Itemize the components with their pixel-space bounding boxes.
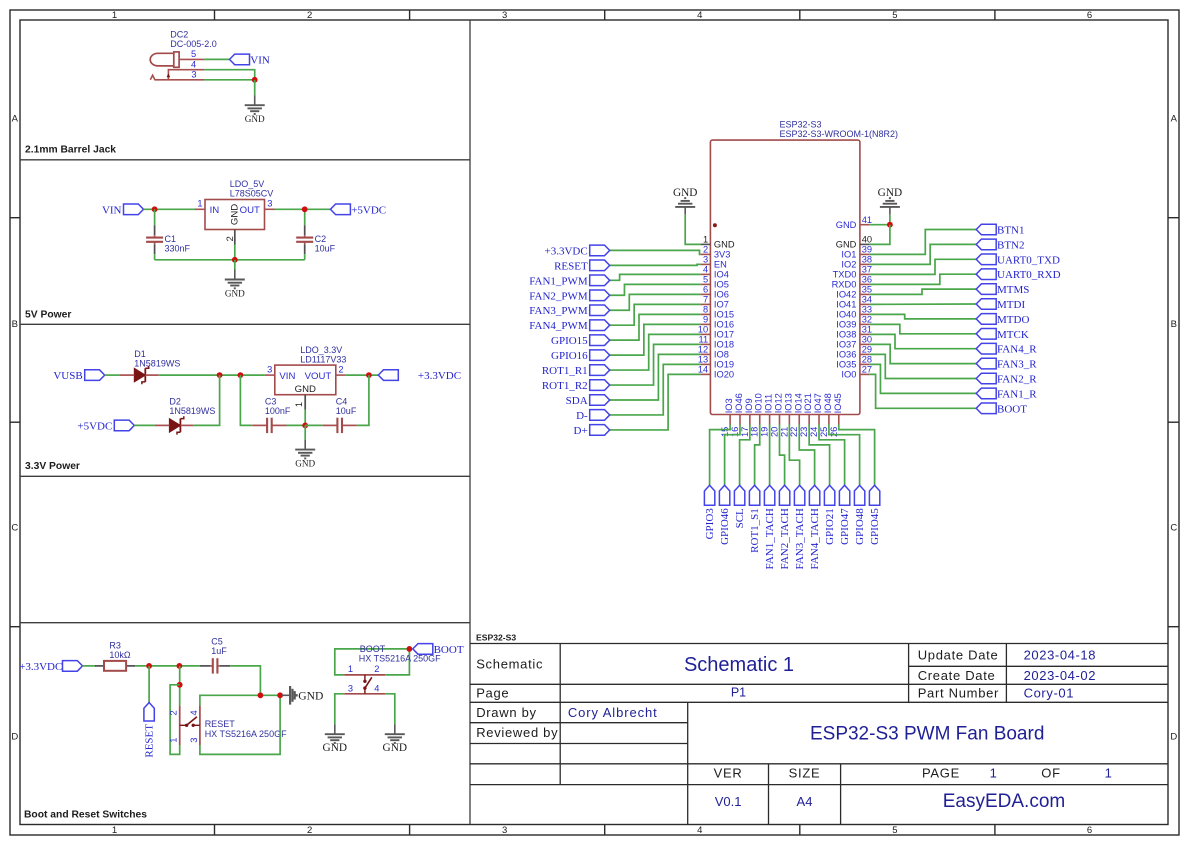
svg-text:D-: D- [576, 410, 588, 422]
svg-text:34: 34 [862, 295, 872, 305]
net flag FAN4_PWM [529, 320, 609, 332]
DC2 pin 4 [167, 60, 205, 80]
U1 pin 24 IO47 [809, 393, 823, 437]
wire boot pin2 to flag [385, 649, 409, 675]
net flag BTN1 [976, 224, 1024, 236]
net flag VIN 5V input [102, 204, 144, 216]
svg-text:C1: C1 [165, 234, 177, 244]
svg-text:C3: C3 [265, 397, 277, 407]
svg-text:3: 3 [191, 70, 196, 80]
svg-text:ROT1_S1: ROT1_S1 [749, 508, 761, 553]
svg-text:HX TS5216A 250GF: HX TS5216A 250GF [359, 654, 441, 664]
svg-text:B: B [1171, 319, 1177, 330]
LDO_3.3V pin 3 VIN [265, 364, 296, 382]
wire VIN from DC2 pin 5 [204, 58, 229, 60]
svg-text:2: 2 [374, 664, 379, 674]
svg-text:GND: GND [245, 114, 265, 124]
wire MTDI to U1 [870, 303, 977, 305]
net flag VIN [230, 54, 270, 66]
U1 pin 1 GND [701, 235, 735, 250]
svg-text:6: 6 [1087, 10, 1092, 21]
svg-text:MTDO: MTDO [997, 314, 1029, 326]
svg-text:IO6: IO6 [714, 290, 729, 300]
wire R3 to C5 [135, 665, 200, 667]
svg-text:IO19: IO19 [714, 360, 734, 370]
junction C3 node top [238, 372, 244, 378]
U1 pin 9 IO16 [701, 315, 734, 330]
wire C3 to GND node [287, 424, 306, 426]
svg-text:32: 32 [862, 315, 872, 325]
capacitor C5 1uF [200, 636, 230, 673]
U1 pin 39 IO1 [841, 245, 872, 260]
svg-text:GND: GND [673, 187, 697, 199]
wire FAN3_PWM to U1 [610, 294, 701, 310]
svg-text:C5: C5 [211, 636, 223, 646]
ground GND boot right [383, 724, 407, 754]
wire D- to U1 [610, 364, 701, 415]
U1 pin 32 IO39 [836, 315, 872, 330]
wire FAN4_TACH to U1 [799, 425, 814, 486]
net flag SDA [566, 395, 610, 407]
svg-text:37: 37 [862, 265, 872, 275]
wire SDA to U1 [610, 354, 701, 400]
svg-text:2: 2 [225, 236, 235, 241]
junction OUT-C2 [302, 206, 308, 212]
svg-text:IO13: IO13 [783, 393, 793, 413]
junction pin41 gnd [887, 222, 893, 228]
net flag BOOT [413, 644, 464, 656]
U1 pin 29 IO36 [836, 345, 872, 360]
wire boot pin1 to flag [335, 649, 410, 675]
svg-text:IO20: IO20 [714, 370, 734, 380]
U1 pin 41 GND [836, 215, 872, 230]
wire C4 branch up [357, 375, 369, 425]
wire node to C4 [305, 424, 322, 426]
ground GND barrel jack [245, 95, 265, 124]
diode D1 1N5819WS [120, 349, 181, 384]
svg-text:B: B [12, 319, 18, 330]
svg-text:1: 1 [348, 664, 353, 674]
wire FAN2_R to U1 [870, 354, 977, 378]
svg-text:GPIO16: GPIO16 [551, 350, 588, 362]
svg-text:IO15: IO15 [714, 310, 734, 320]
svg-text:24: 24 [809, 427, 819, 437]
svg-text:IO39: IO39 [836, 320, 856, 330]
wire RESET flag drop [148, 666, 150, 703]
U1 pin 22 IO14 [789, 393, 803, 437]
svg-text:20: 20 [770, 427, 780, 437]
U1 pin 38 IO2 [841, 255, 872, 270]
section labels [24, 145, 516, 821]
wire ROT1_S1 to U1 [755, 425, 760, 486]
svg-text:EasyEDA.com: EasyEDA.com [943, 791, 1065, 812]
junction gnd rail flag [277, 692, 283, 698]
svg-text:IO37: IO37 [836, 340, 856, 350]
wire FAN3_R to U1 [870, 344, 977, 363]
svg-text:IO45: IO45 [833, 393, 843, 413]
wire FAN2_PWM to U1 [610, 284, 701, 295]
svg-text:ESP32-S3-WROOM-1(N8R2): ESP32-S3-WROOM-1(N8R2) [780, 129, 899, 139]
svg-text:FAN4_TACH: FAN4_TACH [809, 508, 821, 569]
U1 pin 30 IO37 [836, 335, 872, 350]
svg-text:BOOT: BOOT [434, 644, 464, 656]
svg-text:330nF: 330nF [165, 244, 191, 254]
svg-text:1: 1 [197, 199, 202, 209]
svg-text:ROT1_R2: ROT1_R2 [542, 380, 588, 392]
svg-text:4: 4 [703, 265, 708, 275]
svg-text:LD1117V33: LD1117V33 [300, 355, 346, 365]
svg-text:IO11: IO11 [764, 394, 774, 413]
LDO_5V pin 1 IN [195, 199, 219, 216]
svg-text:IO3: IO3 [724, 398, 734, 413]
svg-text:Part Number: Part Number [918, 686, 999, 701]
junction 3.3V gnd node [302, 423, 308, 429]
svg-text:3.3V Power: 3.3V Power [25, 461, 80, 472]
svg-text:IO5: IO5 [714, 280, 729, 290]
section dividers [20, 20, 470, 825]
capacitor C3 100nF [252, 397, 291, 434]
svg-text:FAN4_PWM: FAN4_PWM [529, 320, 588, 332]
ground GND boot left [323, 724, 347, 754]
net flag GPIO21 [824, 485, 836, 545]
net flag RESET [554, 260, 610, 272]
U1 pin 25 IO48 [819, 393, 833, 437]
svg-text:FAN1_R: FAN1_R [997, 388, 1037, 400]
U1 pin 13 IO19 [698, 355, 734, 370]
net flag +3.3VDC [545, 245, 610, 257]
U1 pin 8 IO15 [701, 305, 734, 320]
svg-text:RXD0: RXD0 [832, 280, 857, 290]
svg-text:VOUT: VOUT [305, 371, 332, 382]
wire FAN2_TACH to U1 [780, 425, 785, 486]
svg-text:38: 38 [862, 255, 872, 265]
wire MTMS to U1 [870, 289, 977, 294]
svg-text:31: 31 [862, 325, 872, 335]
svg-text:GPIO47: GPIO47 [839, 508, 851, 545]
svg-text:C: C [1170, 523, 1177, 534]
svg-text:3: 3 [348, 683, 353, 693]
svg-text:FAN1_TACH: FAN1_TACH [764, 508, 776, 569]
wire D1 to LDO_3.3V VIN [159, 374, 265, 376]
ground GND U1 left [673, 187, 697, 215]
wire OUT to +5VDC [275, 208, 331, 210]
net flag GPIO16 [551, 350, 610, 362]
net flag FAN2_TACH [779, 485, 791, 569]
resistor R3 10k [95, 640, 135, 671]
svg-text:2: 2 [307, 825, 312, 836]
svg-text:36: 36 [862, 275, 872, 285]
wire boot pin3 to gnd [335, 694, 344, 724]
wire BTN1 to U1 [870, 230, 977, 255]
svg-text:19: 19 [760, 427, 770, 437]
svg-text:1: 1 [1105, 765, 1112, 780]
net flag FAN3_R [976, 358, 1037, 370]
wire MTCK to U1 [870, 324, 977, 333]
svg-text:IO48: IO48 [823, 393, 833, 413]
svg-text:GPIO46: GPIO46 [719, 508, 731, 545]
svg-text:1: 1 [112, 10, 117, 21]
svg-text:17: 17 [740, 427, 750, 437]
svg-text:18: 18 [750, 427, 760, 437]
U1 pin 36 RXD0 [832, 275, 872, 290]
labels BOOT switch [359, 644, 441, 664]
LDO_5V pin 2 GND [225, 204, 240, 245]
svg-text:FAN2_R: FAN2_R [997, 374, 1037, 386]
U1 pin 14 IO20 [698, 365, 734, 380]
svg-text:5: 5 [191, 49, 196, 59]
LDO_3.3V pin 1 GND [294, 384, 316, 410]
svg-text:2: 2 [703, 245, 708, 255]
svg-text:5: 5 [703, 275, 708, 285]
net flag MTDI [976, 299, 1025, 311]
net flag GPIO47 [839, 485, 851, 545]
net flag +5VDC [330, 204, 386, 216]
svg-text:4: 4 [697, 10, 702, 21]
net flag UART0_RXD [976, 269, 1060, 281]
wire FAN1_TACH to U1 [769, 425, 771, 486]
svg-text:1N5819WS: 1N5819WS [169, 406, 215, 416]
net flag FAN1_TACH [764, 485, 776, 569]
svg-text:1uF: 1uF [211, 646, 227, 656]
svg-text:FAN1_PWM: FAN1_PWM [529, 275, 588, 287]
svg-text:D: D [1170, 732, 1177, 743]
svg-text:IO17: IO17 [714, 330, 734, 340]
junction boot flag [407, 646, 413, 652]
svg-text:FAN2_TACH: FAN2_TACH [779, 508, 791, 569]
net flag RESET vertical [144, 703, 156, 758]
svg-text:GND: GND [836, 220, 857, 230]
marker dot U1 [713, 223, 717, 227]
junction reset loop [177, 682, 183, 688]
wire reset pins 3-4 to gnd rail [200, 695, 280, 705]
wire GPIO48 to U1 [829, 425, 860, 486]
wire ROT1_R2 to U1 [610, 344, 701, 385]
svg-text:PAGE: PAGE [922, 765, 960, 780]
wire VOUT to +3.3VDC flag [346, 374, 379, 376]
svg-text:6: 6 [703, 285, 708, 295]
wire +3.3VDC to U1 [610, 250, 701, 254]
title block labels [476, 648, 1061, 781]
svg-text:FAN3_R: FAN3_R [997, 359, 1037, 371]
svg-text:GPIO21: GPIO21 [824, 508, 836, 545]
wire 5V ground rail [155, 259, 305, 261]
svg-text:1: 1 [112, 825, 117, 836]
wire GPIO45 to U1 [839, 425, 875, 486]
svg-text:1N5819WS: 1N5819WS [134, 359, 180, 369]
net flag D- [576, 410, 610, 422]
DC2 pin 3 [150, 70, 204, 80]
net flag ROT1_S1 [749, 485, 761, 553]
svg-text:9: 9 [703, 315, 708, 325]
wire UART0_RXD to U1 [870, 274, 977, 284]
svg-text:33: 33 [862, 305, 872, 315]
svg-text:VIN: VIN [250, 54, 270, 66]
svg-text:P1: P1 [731, 685, 746, 699]
svg-text:GND: GND [298, 690, 323, 703]
svg-text:D+: D+ [574, 425, 588, 437]
wire FAN4_R to U1 [870, 334, 977, 348]
wire to reset switch pin2 [179, 666, 181, 706]
svg-text:13: 13 [698, 355, 708, 365]
svg-text:GND: GND [836, 240, 857, 250]
U1 pin 37 TXD0 [833, 265, 872, 280]
wire reset pins 1-2 loop [170, 685, 180, 755]
wire UART0_TXD to U1 [870, 259, 977, 274]
net flag FAN3_PWM [529, 305, 609, 317]
U1 pin 34 IO41 [836, 295, 872, 310]
svg-text:VIN: VIN [279, 371, 295, 382]
svg-text:IO40: IO40 [836, 310, 856, 320]
svg-text:GPIO3: GPIO3 [704, 508, 716, 540]
wire GPIO15 to U1 [610, 314, 701, 340]
svg-text:14: 14 [698, 365, 708, 375]
LDO_3.3V pin 2 VOUT [305, 364, 346, 382]
svg-text:10kΩ: 10kΩ [109, 650, 131, 660]
net flag D+ [574, 425, 610, 437]
wire GND drop [254, 80, 256, 95]
svg-text:C: C [11, 523, 18, 534]
switch RESET HX TS5216A 250GF [169, 706, 287, 745]
svg-text:2.1mm Barrel Jack: 2.1mm Barrel Jack [25, 145, 116, 156]
svg-text:L78S05CV: L78S05CV [230, 189, 274, 199]
svg-text:IO41: IO41 [836, 300, 856, 310]
svg-text:+3.3VDC: +3.3VDC [418, 370, 461, 382]
wire +3.3VDC to R3 [83, 665, 96, 667]
svg-text:DC-005-2.0: DC-005-2.0 [170, 39, 217, 49]
net flag FAN2_R [976, 373, 1037, 385]
junction RESET branch [146, 663, 152, 669]
svg-text:MTCK: MTCK [997, 329, 1029, 341]
wire VUSB to D1 [105, 374, 120, 376]
module U1 ESP32-S3-WROOM-1 [710, 119, 898, 414]
net flag FAN2_PWM [529, 290, 609, 302]
svg-text:+5VDC: +5VDC [351, 204, 386, 216]
wire ROT1_R1 to U1 [610, 334, 701, 370]
wire D+ to U1 [610, 374, 701, 430]
svg-text:D1: D1 [134, 349, 146, 359]
svg-text:3: 3 [502, 825, 507, 836]
U1 pin 21 IO13 [779, 393, 793, 437]
svg-text:OUT: OUT [240, 205, 260, 216]
wire +5VDC to D2 [134, 424, 155, 426]
svg-text:IO46: IO46 [734, 393, 744, 413]
svg-text:RESET: RESET [554, 260, 588, 272]
svg-text:GPIO48: GPIO48 [854, 508, 866, 545]
svg-text:3: 3 [267, 364, 272, 374]
svg-text:10uF: 10uF [315, 244, 336, 254]
net flag BOOT [976, 403, 1027, 415]
svg-text:A4: A4 [797, 794, 813, 809]
svg-text:BOOT: BOOT [360, 644, 386, 654]
wire D2 to junction up [194, 375, 220, 425]
wire reset pin3 loop [200, 695, 280, 754]
svg-text:HX TS5216A 250GF: HX TS5216A 250GF [205, 729, 287, 739]
svg-text:R3: R3 [109, 640, 121, 650]
svg-text:40: 40 [862, 235, 872, 245]
svg-text:3: 3 [267, 199, 272, 209]
U1 pin 2 3V3 [701, 245, 731, 260]
wire GPIO47 to U1 [819, 425, 845, 486]
svg-text:2: 2 [169, 710, 179, 715]
svg-text:FAN2_PWM: FAN2_PWM [529, 290, 588, 302]
svg-text:D2: D2 [169, 397, 181, 407]
svg-text:5: 5 [892, 825, 897, 836]
svg-text:FAN4_R: FAN4_R [997, 344, 1037, 356]
junction 5V rail [232, 257, 238, 263]
svg-text:1: 1 [294, 402, 304, 407]
svg-text:5: 5 [892, 10, 897, 21]
capacitor C1 330nF [146, 209, 190, 259]
svg-text:BTN1: BTN1 [997, 225, 1025, 237]
svg-text:3V3: 3V3 [714, 250, 731, 260]
net flag FAN3_TACH [794, 485, 806, 569]
U1 pin 23 IO21 [799, 393, 813, 437]
svg-text:+3.3VDC: +3.3VDC [545, 245, 588, 257]
svg-text:ESP32-S3 PWM Fan Board: ESP32-S3 PWM Fan Board [810, 724, 1044, 745]
svg-text:IO35: IO35 [836, 360, 856, 370]
svg-text:ESP32-S3: ESP32-S3 [780, 119, 822, 129]
svg-text:IO7: IO7 [714, 300, 729, 310]
svg-text:10: 10 [698, 325, 708, 335]
svg-text:FAN3_TACH: FAN3_TACH [794, 508, 806, 569]
wire RESET to U1 [610, 263, 701, 266]
net flag ROT1_R2 [542, 380, 610, 392]
svg-text:D: D [11, 732, 18, 743]
svg-text:V0.1: V0.1 [715, 794, 742, 809]
svg-text:2: 2 [338, 364, 343, 374]
svg-text:Cory Albrecht: Cory Albrecht [568, 705, 658, 720]
svg-text:IO4: IO4 [714, 270, 729, 280]
svg-text:GND: GND [323, 742, 347, 754]
net flag VUSB [53, 370, 104, 382]
wire GPIO16 to U1 [610, 324, 701, 355]
svg-text:IO9: IO9 [744, 398, 754, 413]
wire BTN2 to U1 [870, 244, 977, 264]
svg-text:C2: C2 [315, 234, 327, 244]
svg-text:IO8: IO8 [714, 350, 729, 360]
svg-text:2023-04-18: 2023-04-18 [1024, 648, 1097, 663]
svg-text:4: 4 [697, 825, 702, 836]
svg-text:RESET: RESET [205, 719, 236, 729]
svg-text:IO21: IO21 [803, 393, 813, 413]
svg-text:LDO_3.3V: LDO_3.3V [300, 345, 342, 355]
wire boot pin4 to gnd [385, 694, 395, 724]
svg-text:DC2: DC2 [170, 29, 188, 39]
svg-text:Page: Page [476, 686, 509, 701]
svg-text:BTN2: BTN2 [997, 239, 1025, 251]
U1 pin 26 IO45 [829, 393, 843, 437]
svg-text:3: 3 [703, 255, 708, 265]
net flag FAN1_R [976, 388, 1037, 400]
switch BOOT HX TS5216A 250GF [344, 664, 385, 694]
wire VIN to U-LDO5V IN [144, 208, 196, 210]
svg-text:IO1: IO1 [841, 250, 856, 260]
svg-text:39: 39 [862, 245, 872, 255]
svg-text:4: 4 [189, 710, 199, 715]
capacitor C4 10uF [323, 397, 357, 434]
U1 pin 7 IO7 [701, 295, 729, 310]
svg-text:23: 23 [799, 427, 809, 437]
svg-text:Schematic 1: Schematic 1 [684, 654, 794, 676]
svg-text:IO12: IO12 [774, 393, 784, 413]
svg-text:Cory-01: Cory-01 [1024, 686, 1074, 701]
junction gnd rail C5 [258, 692, 264, 698]
svg-text:GND: GND [878, 187, 902, 199]
net flag FAN1_PWM [529, 275, 609, 287]
svg-text:VER: VER [714, 765, 743, 780]
title block grid [470, 644, 1168, 825]
svg-text:3: 3 [189, 738, 199, 743]
